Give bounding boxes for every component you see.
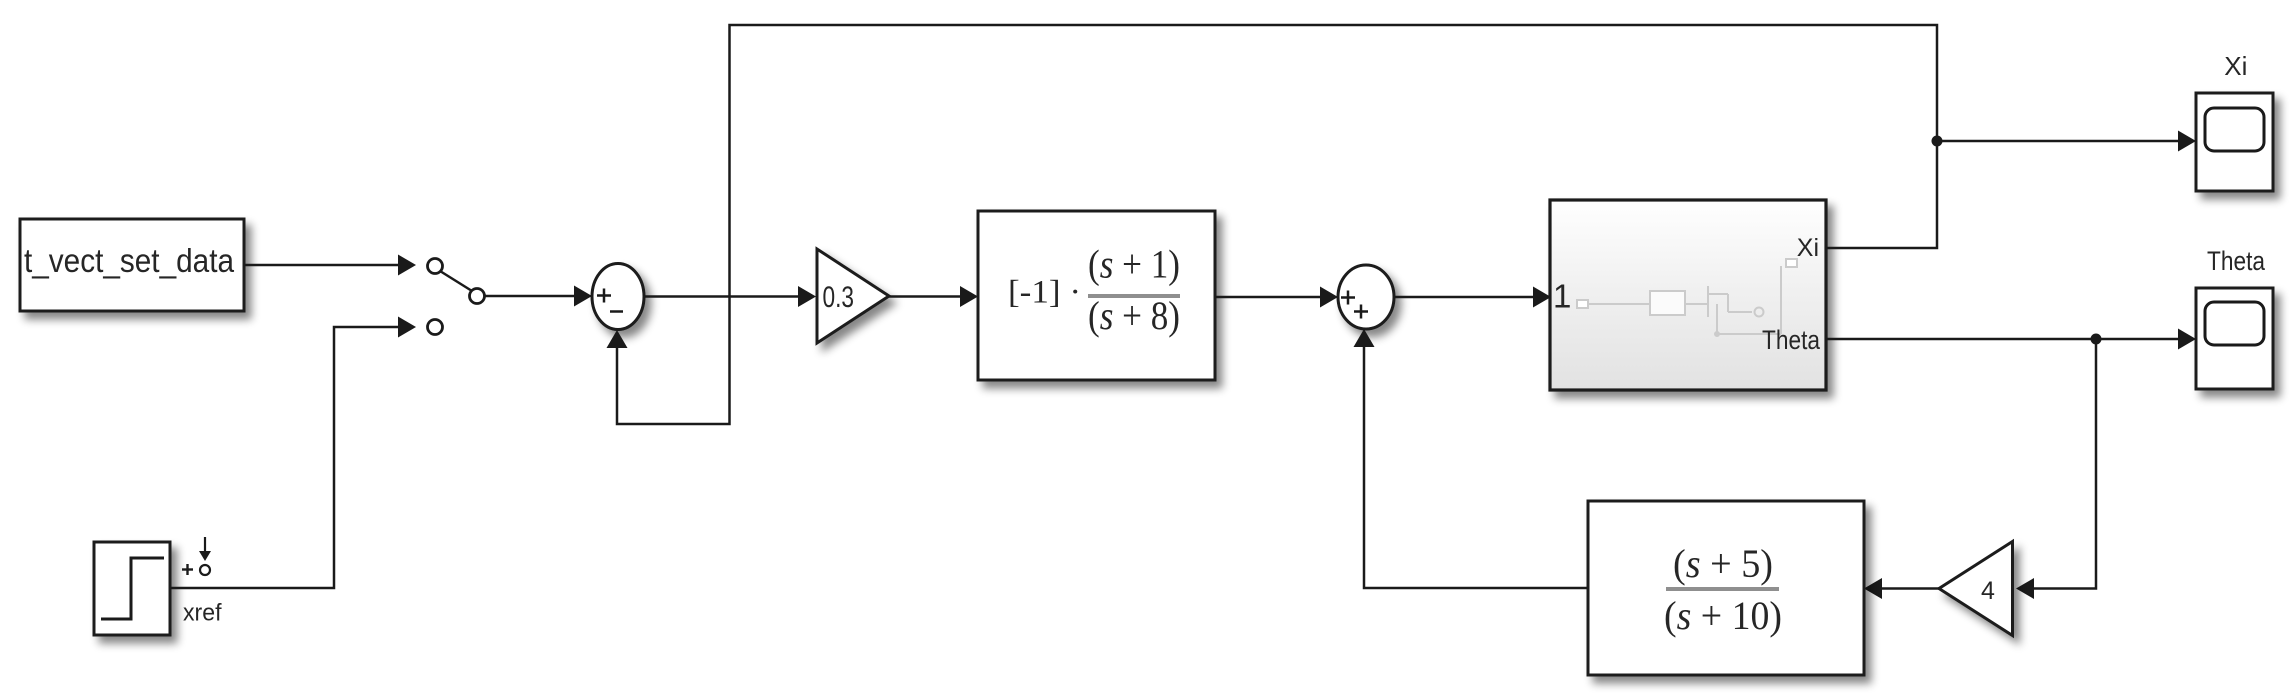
wire gain 4 to TF2 (1864, 578, 1939, 599)
svg-text:0.3: 0.3 (823, 281, 855, 314)
svg-text:(s + 1): (s + 1) (1088, 242, 1180, 287)
source block t_vect_set_data (20, 219, 244, 311)
step source block (94, 542, 170, 635)
svg-text:Theta: Theta (2207, 246, 2266, 276)
wire step to switch input 2 (170, 317, 416, 589)
wire subsystem Xi output up and across top into sum1 feedback (607, 25, 1938, 424)
manual switch (428, 259, 485, 335)
inner faint diagram (1577, 259, 1797, 336)
wire junction down to gain 4 (2016, 339, 2096, 599)
svg-text:(s + 10): (s + 10) (1664, 593, 1782, 638)
svg-text:Theta: Theta (1762, 325, 1821, 355)
svg-text:Xi: Xi (1797, 234, 1819, 262)
wire sum1 to gain 0.3 (644, 286, 816, 307)
svg-text:(s + 5): (s + 5) (1673, 541, 1773, 586)
gain G2 4 (1939, 542, 2013, 636)
wire t_vect to switch input 1 (244, 255, 416, 276)
transfer fcn TF2 (s+5)/(s+10) (1588, 501, 1864, 675)
scope Xi (2196, 93, 2273, 191)
junction node on Theta wire (2091, 334, 2102, 345)
svg-text:(s + 8): (s + 8) (1088, 293, 1180, 338)
svg-text:Xi: Xi (2224, 51, 2247, 81)
junction node on Xi wire (1932, 136, 1943, 147)
sum junction Sum2 (1338, 265, 1394, 329)
annotation plus circle marker (182, 537, 211, 575)
wire gain 0.3 to TF1 (889, 286, 978, 307)
scope Theta (2196, 288, 2273, 389)
wire switch to sum1 (484, 286, 592, 307)
wire subsystem Theta output to scope Theta (1826, 329, 2196, 350)
sum junction Sum1 (592, 264, 644, 330)
subsystem block (1550, 200, 1826, 390)
transfer fcn TF1 [-1](s+1)/(s+8) (978, 211, 1215, 380)
wire TF1 to sum2 (1215, 287, 1338, 308)
svg-text:[-1] ·: [-1] · (1008, 275, 1081, 311)
gain G1 0.3 (817, 249, 889, 343)
wire junction to scope Xi (1937, 131, 2196, 152)
svg-text:t_vect_set_data: t_vect_set_data (24, 242, 235, 279)
wire sum2 to subsystem (1394, 287, 1551, 308)
svg-text:1: 1 (1553, 278, 1571, 315)
svg-text:xref: xref (183, 600, 222, 627)
svg-text:4: 4 (1981, 577, 1995, 605)
wire TF2 output to sum2 bottom (1354, 329, 1589, 588)
